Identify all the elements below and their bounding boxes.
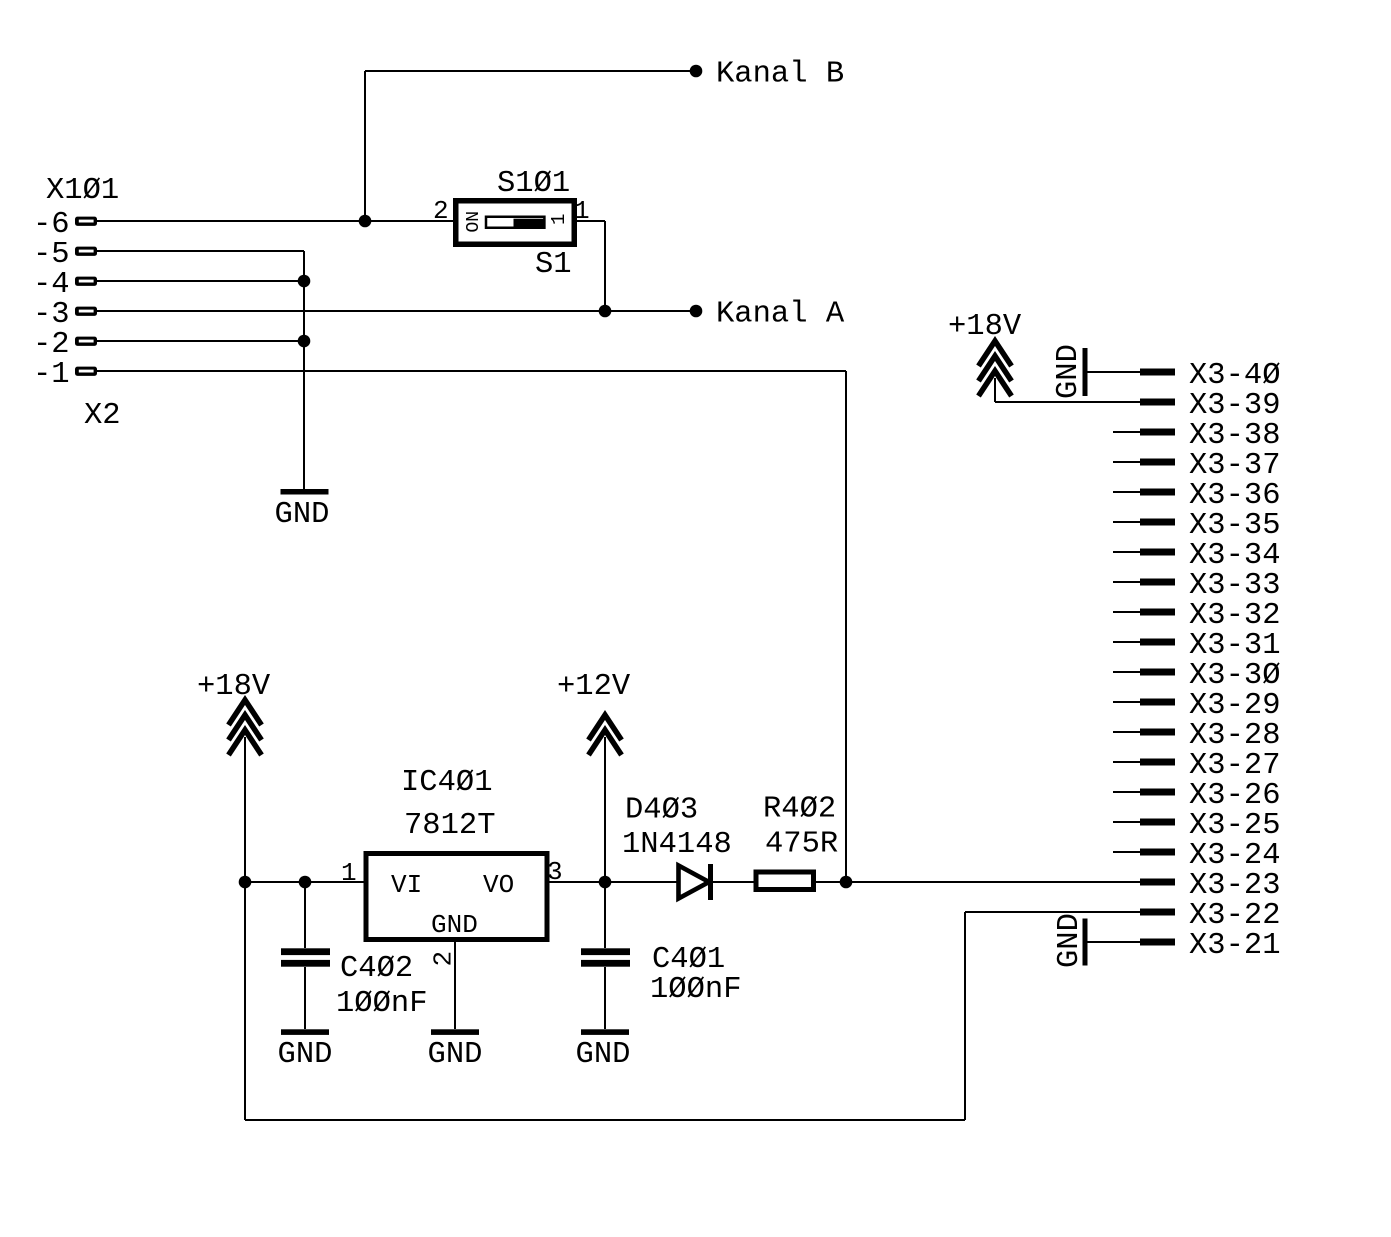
svg-text:1: 1 <box>548 214 570 225</box>
svg-text:X3-31: X3-31 <box>1189 629 1281 663</box>
svg-text:Kanal A: Kanal A <box>716 298 845 332</box>
svg-text:IC4Ø1: IC4Ø1 <box>401 766 493 800</box>
svg-text:GND: GND <box>576 1038 631 1072</box>
svg-text:X3-35: X3-35 <box>1189 509 1281 543</box>
svg-text:2: 2 <box>429 951 459 967</box>
svg-text:X3-21: X3-21 <box>1189 929 1281 963</box>
svg-text:X3-23: X3-23 <box>1189 869 1281 903</box>
svg-text:X3-24: X3-24 <box>1189 839 1281 873</box>
svg-text:VI: VI <box>391 870 422 900</box>
svg-text:X3-22: X3-22 <box>1189 899 1281 933</box>
svg-text:GND: GND <box>1053 913 1087 968</box>
svg-text:X2: X2 <box>84 399 121 433</box>
svg-text:VO: VO <box>483 870 514 900</box>
svg-text:X3-3Ø: X3-3Ø <box>1189 659 1281 693</box>
svg-text:X3-29: X3-29 <box>1189 689 1281 723</box>
svg-text:X3-34: X3-34 <box>1189 539 1281 573</box>
svg-text:-6: -6 <box>33 208 70 242</box>
svg-text:X3-32: X3-32 <box>1189 599 1281 633</box>
svg-text:R4Ø2: R4Ø2 <box>763 793 836 827</box>
svg-text:GND: GND <box>275 498 330 532</box>
svg-text:S1: S1 <box>535 248 572 282</box>
svg-text:GND: GND <box>428 1038 483 1072</box>
svg-text:X3-4Ø: X3-4Ø <box>1189 359 1281 393</box>
svg-text:X3-33: X3-33 <box>1189 569 1281 603</box>
svg-text:X3-38: X3-38 <box>1189 419 1281 453</box>
svg-text:X3-39: X3-39 <box>1189 389 1281 423</box>
svg-text:-4: -4 <box>33 268 70 302</box>
svg-text:X3-27: X3-27 <box>1189 749 1281 783</box>
svg-text:475R: 475R <box>765 828 838 862</box>
svg-text:-5: -5 <box>33 238 70 272</box>
svg-text:X3-36: X3-36 <box>1189 479 1281 513</box>
svg-text:GND: GND <box>278 1038 333 1072</box>
svg-text:1: 1 <box>574 196 590 226</box>
svg-text:X3-25: X3-25 <box>1189 809 1281 843</box>
svg-text:1ØØnF: 1ØØnF <box>336 987 428 1021</box>
svg-text:X3-28: X3-28 <box>1189 719 1281 753</box>
svg-text:1: 1 <box>341 858 357 888</box>
svg-text:+18V: +18V <box>948 310 1022 344</box>
svg-text:S1Ø1: S1Ø1 <box>497 167 570 201</box>
svg-text:GND: GND <box>431 910 478 940</box>
svg-text:1ØØnF: 1ØØnF <box>650 973 742 1007</box>
svg-text:GND: GND <box>1052 344 1086 399</box>
svg-text:1N4148: 1N4148 <box>622 828 732 862</box>
svg-text:7812T: 7812T <box>404 809 496 843</box>
svg-text:-3: -3 <box>33 298 70 332</box>
svg-text:C4Ø1: C4Ø1 <box>652 943 725 977</box>
svg-text:3: 3 <box>547 857 563 887</box>
svg-text:ON: ON <box>464 211 484 233</box>
svg-text:-1: -1 <box>33 358 70 392</box>
svg-text:X3-37: X3-37 <box>1189 449 1281 483</box>
svg-text:+18V: +18V <box>197 670 271 704</box>
svg-text:Kanal B: Kanal B <box>716 58 844 92</box>
svg-text:X1Ø1: X1Ø1 <box>46 174 119 208</box>
svg-text:C4Ø2: C4Ø2 <box>340 952 413 986</box>
svg-text:D4Ø3: D4Ø3 <box>625 794 698 828</box>
svg-text:-2: -2 <box>33 328 70 362</box>
svg-text:2: 2 <box>433 196 449 226</box>
svg-text:X3-26: X3-26 <box>1189 779 1281 813</box>
svg-text:+12V: +12V <box>557 670 631 704</box>
